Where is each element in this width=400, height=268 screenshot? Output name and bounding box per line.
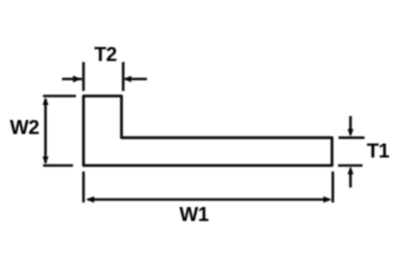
W1 extension line right [331, 172, 334, 203]
W1 extension line left [82, 172, 85, 203]
T2 right arrowhead (points left) [123, 76, 131, 82]
T2 extension line right [122, 62, 125, 91]
svg-text:W2: W2 [10, 117, 39, 139]
T2 right arrow leader [125, 78, 147, 81]
T1 extension line bottom [338, 164, 363, 167]
svg-text:T2: T2 [94, 44, 117, 66]
T1 up arrow leader [349, 169, 352, 188]
T2 extension line left [82, 62, 85, 91]
W1 dimension line [88, 198, 329, 201]
T1 down arrow leader [349, 116, 352, 135]
W1 right arrowhead (points right) [323, 196, 331, 203]
T1 down arrowhead [348, 129, 354, 137]
svg-text:W1: W1 [179, 204, 208, 226]
W2 extension line top [43, 95, 76, 98]
W2 dimension line [44, 99, 47, 163]
W1 left arrowhead (points left) [86, 196, 94, 203]
L-profile outline [84, 96, 333, 166]
T2 left arrow leader [62, 78, 82, 81]
W2 top arrowhead (points up) [43, 97, 49, 105]
W2 bottom arrowhead (points down) [43, 157, 49, 165]
T2 left arrowhead (points right) [73, 76, 81, 83]
T1 up arrowhead [348, 167, 354, 175]
T1 extension line top [339, 136, 365, 139]
svg-text:T1: T1 [367, 141, 390, 163]
W2 extension line bottom [43, 164, 73, 167]
